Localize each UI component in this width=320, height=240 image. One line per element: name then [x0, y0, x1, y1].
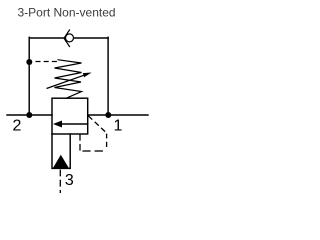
svg-text:1: 1 — [114, 118, 123, 135]
svg-text:3: 3 — [65, 172, 74, 189]
svg-text:3-Port Non-vented: 3-Port Non-vented — [18, 6, 116, 20]
svg-text:2: 2 — [13, 118, 22, 135]
